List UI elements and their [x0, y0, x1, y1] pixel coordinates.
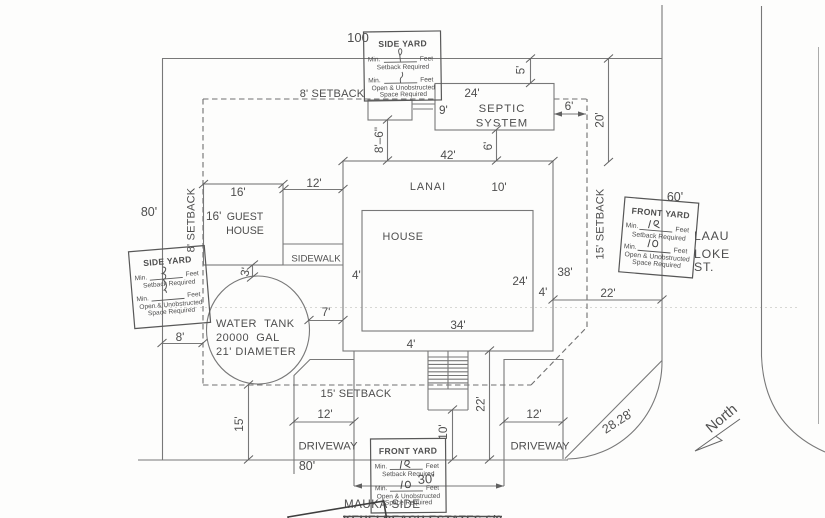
- svg-text:8'–6": 8'–6": [372, 127, 386, 153]
- sidewalk top edge: [283, 244, 343, 265]
- svg-text:ST.: ST.: [694, 260, 714, 274]
- svg-text:7': 7': [322, 305, 331, 319]
- svg-text:FRONT YARD: FRONT YARD: [379, 446, 437, 457]
- strikethrough over subdivision name: [343, 516, 502, 518]
- dimension 22' lanai to road: [549, 286, 667, 304]
- dimension 6' right of septic: [554, 99, 586, 117]
- svg-text:Min.: Min.: [625, 222, 638, 230]
- svg-text:Feet: Feet: [187, 291, 201, 299]
- svg-text:SEPTIC: SEPTIC: [479, 103, 526, 115]
- svg-text:6': 6': [481, 142, 495, 151]
- svg-text:GUEST: GUEST: [227, 211, 264, 223]
- svg-text:8': 8': [176, 330, 185, 344]
- setback dashed: top 8': [203, 98, 587, 100]
- svg-text:4': 4': [352, 268, 361, 282]
- svg-text:WATER TANK: WATER TANK: [216, 318, 295, 330]
- svg-text:Min.: Min.: [375, 485, 388, 492]
- svg-text:Feet: Feet: [675, 226, 689, 234]
- svg-text:Min.: Min.: [136, 295, 149, 303]
- svg-text:DRIVEWAY: DRIVEWAY: [511, 441, 570, 453]
- svg-text:24': 24': [512, 274, 527, 288]
- svg-text:42': 42': [440, 148, 455, 162]
- svg-text:Setback Required: Setback Required: [377, 64, 430, 72]
- road east edge: [762, 6, 825, 452]
- lot boundary north (100'): [162, 58, 662, 60]
- svg-text:20000 GAL: 20000 GAL: [216, 332, 280, 344]
- septic small distribution box: [368, 100, 412, 120]
- svg-text:20': 20': [593, 112, 607, 127]
- svg-text:Min.: Min.: [134, 274, 147, 282]
- svg-text:Setback Required: Setback Required: [382, 471, 435, 478]
- stamp: side yard (left): [129, 246, 211, 329]
- svg-text:Feet: Feet: [185, 270, 199, 278]
- svg-text:6': 6': [565, 99, 574, 113]
- svg-text:8' SETBACK: 8' SETBACK: [300, 88, 365, 100]
- svg-text:24': 24': [464, 86, 479, 100]
- dimension 12' left driveway: [290, 407, 359, 426]
- dimension 22' lanai to south boundary: [474, 347, 494, 464]
- north arrow: [695, 419, 740, 451]
- svg-text:Min.: Min.: [624, 243, 637, 251]
- lot boundary south (80'): [138, 459, 568, 461]
- dimension 42' lanai width ticks: [339, 148, 558, 165]
- setback dashed: west 8': [202, 99, 204, 385]
- svg-text:Feet: Feet: [420, 56, 433, 63]
- connector line box to septic: [412, 103, 435, 105]
- svg-text:SIDEWALK: SIDEWALK: [291, 254, 341, 265]
- svg-text:LAAU: LAAU: [694, 229, 729, 243]
- dimension 5' (top boundary to septic): [514, 55, 535, 88]
- svg-text:KEHEI BEACH ESTATES 6/9: KEHEI BEACH ESTATES 6/9: [343, 514, 502, 518]
- svg-text:15' SETBACK: 15' SETBACK: [321, 388, 392, 400]
- svg-text:4': 4': [407, 337, 416, 351]
- dimension 15' setback to south boundary: [232, 381, 253, 464]
- svg-text:Space Required: Space Required: [385, 499, 433, 506]
- svg-text:Feet: Feet: [426, 463, 439, 470]
- setback dashed: east 15': [586, 99, 588, 327]
- svg-text:16': 16': [230, 185, 245, 199]
- dimension 7' tank to lanai: [305, 305, 348, 324]
- svg-text:DRIVEWAY: DRIVEWAY: [299, 441, 358, 453]
- svg-text:22': 22': [474, 396, 488, 411]
- svg-text:80': 80': [141, 205, 157, 219]
- far lot line right of road: [818, 47, 820, 424]
- svg-text:Min.: Min.: [375, 463, 388, 470]
- svg-text:38': 38': [557, 265, 572, 279]
- svg-text:15': 15': [232, 416, 246, 431]
- svg-text:10': 10': [491, 180, 506, 194]
- dimension 3' guest house to tank: [237, 261, 258, 282]
- setback dashed: south 15': [203, 384, 531, 386]
- svg-text:Min.: Min.: [368, 56, 381, 63]
- svg-text:Feet: Feet: [673, 247, 687, 255]
- svg-text:HOUSE: HOUSE: [383, 231, 424, 243]
- svg-text:12': 12': [526, 407, 541, 421]
- dimension 16' guest house top: [199, 180, 288, 199]
- svg-text:Feet: Feet: [420, 77, 433, 84]
- dimension 12' guest house to lanai: [280, 176, 348, 193]
- svg-text:SYSTEM: SYSTEM: [476, 118, 528, 130]
- lot corner chamfer 28.28': [565, 361, 662, 459]
- svg-text:34': 34': [450, 318, 465, 332]
- svg-text:12': 12': [317, 407, 332, 421]
- septic system tank: [435, 84, 554, 131]
- svg-text:Feet: Feet: [426, 485, 439, 492]
- house outline: [362, 211, 533, 332]
- stamp: partial (bottom left, clipped): [288, 501, 396, 518]
- dimension 20' (top boundary to setback corner): [593, 55, 613, 167]
- svg-text:22': 22': [600, 286, 615, 300]
- svg-text:12': 12': [306, 176, 321, 190]
- dimension 10' stairs to south boundary: [436, 406, 457, 464]
- stamp: front yard (right): [619, 197, 699, 278]
- svg-text:SIDE YARD: SIDE YARD: [378, 38, 427, 49]
- dimension 30' between driveways: [354, 471, 504, 489]
- svg-text:15' SETBACK: 15' SETBACK: [594, 188, 606, 259]
- svg-text:80': 80': [299, 459, 315, 473]
- dimension 9' label and line: [413, 103, 448, 117]
- street corner curve: [568, 361, 663, 459]
- stamp: side yard (top): [364, 31, 442, 101]
- svg-text:16': 16': [206, 209, 221, 223]
- scan artifact faint dotted line across page: [150, 307, 800, 309]
- svg-text:10': 10': [436, 424, 450, 439]
- lot boundary west (80'): [162, 59, 164, 461]
- dimension 8' west boundary to setback: [158, 330, 208, 347]
- stairs treads: [428, 357, 468, 410]
- stamp: front yard (bottom): [371, 438, 447, 513]
- svg-text:9': 9': [439, 103, 448, 117]
- water tank circle: [207, 276, 310, 384]
- svg-text:4': 4': [539, 285, 548, 299]
- svg-text:21' DIAMETER: 21' DIAMETER: [216, 346, 296, 358]
- svg-text:LOKE: LOKE: [694, 247, 730, 261]
- right driveway outline: [504, 360, 563, 487]
- svg-text:5': 5': [514, 66, 528, 75]
- dimension 12' right driveway: [500, 407, 568, 426]
- stairs rails: [428, 351, 468, 410]
- svg-text:HOUSE: HOUSE: [226, 225, 264, 237]
- dimension 8'-6" box to lanai: [372, 116, 392, 165]
- svg-text:Space Required: Space Required: [380, 91, 428, 99]
- dimension 6' septic to lanai: [481, 126, 501, 165]
- svg-text:8' SETBACK: 8' SETBACK: [185, 187, 197, 252]
- guest house outline: [204, 184, 284, 265]
- left driveway outline: [294, 351, 354, 486]
- lanai outline: [343, 161, 553, 351]
- road west edge: [661, 5, 663, 361]
- svg-text:Min.: Min.: [368, 77, 381, 84]
- setback dashed: corner diagonal: [531, 327, 587, 385]
- svg-text:LANAI: LANAI: [410, 181, 446, 193]
